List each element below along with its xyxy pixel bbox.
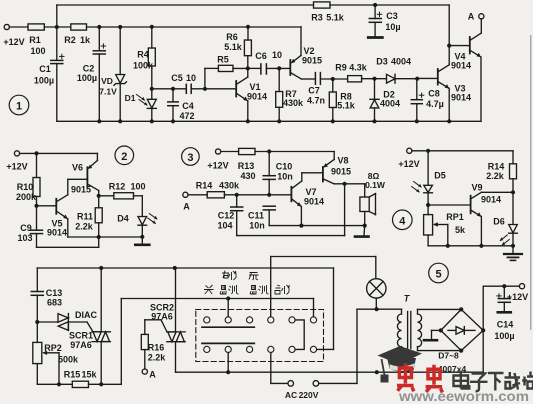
capacitor C10 bbox=[263, 152, 275, 195]
svg-text:C2: C2 bbox=[83, 64, 95, 74]
wire long bottom bbox=[176, 371, 484, 373]
svg-text:100µ: 100µ bbox=[34, 76, 54, 86]
label jiance 1 (monitor) bbox=[220, 285, 239, 294]
watermark chong chong red bbox=[397, 364, 442, 393]
svg-text:683: 683 bbox=[47, 298, 62, 308]
svg-text:104: 104 bbox=[217, 221, 232, 231]
svg-text:100µ: 100µ bbox=[494, 331, 514, 341]
svg-text:www.eeworm.com: www.eeworm.com bbox=[398, 388, 529, 404]
svg-text:15k: 15k bbox=[81, 370, 97, 380]
dian bbox=[454, 371, 470, 389]
svg-text:9014: 9014 bbox=[451, 61, 471, 71]
text labels bottom bbox=[44, 288, 528, 400]
node bbox=[502, 284, 506, 288]
transistor V8 bbox=[323, 152, 365, 184]
svg-text:C14: C14 bbox=[497, 320, 514, 330]
svg-text:430k: 430k bbox=[219, 181, 240, 191]
svg-text:9014: 9014 bbox=[304, 197, 324, 207]
resistor R10 bbox=[33, 153, 40, 205]
node bbox=[97, 25, 101, 29]
svg-text:C8: C8 bbox=[428, 89, 440, 99]
wire AC2 to lamp bbox=[319, 309, 402, 383]
resistor R7 bbox=[276, 68, 283, 121]
svg-text:C5: C5 bbox=[171, 73, 183, 83]
section number 4 bbox=[393, 210, 413, 230]
text labels block 3 bbox=[183, 156, 386, 231]
svg-text:200k: 200k bbox=[16, 192, 37, 202]
node bbox=[173, 266, 177, 270]
label jiance 2 (monitor) bbox=[250, 285, 269, 294]
svg-text:AC: AC bbox=[285, 390, 297, 400]
svg-text:C12: C12 bbox=[218, 211, 235, 221]
svg-text:+12V: +12V bbox=[507, 292, 528, 302]
wire bbox=[152, 88, 187, 90]
label taideng (desk lamp) bbox=[275, 285, 290, 295]
svg-text:7.1V: 7.1V bbox=[99, 87, 117, 97]
svg-text:V9: V9 bbox=[471, 183, 482, 193]
diode D3 bbox=[387, 74, 418, 83]
node bbox=[97, 194, 101, 198]
resistor R4 bbox=[148, 27, 155, 89]
terminal A block3 bbox=[183, 192, 188, 197]
svg-text:DIAC: DIAC bbox=[75, 310, 97, 320]
capacitor C12 bbox=[231, 195, 345, 236]
wire bbox=[412, 150, 513, 152]
capacitor C8 bbox=[411, 79, 424, 122]
svg-text:4007x4: 4007x4 bbox=[438, 364, 467, 374]
node bbox=[511, 244, 515, 248]
wire stem bottom c2 bbox=[227, 353, 229, 373]
node bbox=[375, 370, 379, 374]
wire bottom c6 riser bbox=[317, 268, 334, 349]
terminal AC1 bbox=[288, 381, 294, 387]
node bbox=[331, 119, 335, 123]
wire bbox=[330, 4, 449, 6]
svg-text:10: 10 bbox=[272, 50, 282, 60]
svg-text:D6: D6 bbox=[493, 217, 505, 227]
svg-text:VD: VD bbox=[101, 76, 113, 86]
transistor V7 bbox=[291, 173, 323, 226]
node bbox=[277, 119, 281, 123]
svg-text:+12V: +12V bbox=[3, 37, 24, 47]
svg-text:5: 5 bbox=[435, 269, 441, 281]
capacitor C14 bbox=[497, 286, 511, 312]
svg-text:A: A bbox=[149, 370, 156, 380]
svg-text:D1: D1 bbox=[125, 93, 136, 103]
switch wiper bar top bbox=[202, 326, 254, 328]
ground speaker bbox=[355, 226, 369, 237]
zi bbox=[470, 374, 488, 392]
svg-text:R13: R13 bbox=[238, 161, 255, 171]
transistor V9 bbox=[471, 192, 513, 246]
bridge rectifier D7-8 bbox=[439, 307, 486, 352]
svg-text:9015: 9015 bbox=[302, 56, 322, 66]
svg-text:10n: 10n bbox=[249, 221, 265, 231]
svg-text:9014: 9014 bbox=[247, 92, 267, 102]
svg-text:4.3k: 4.3k bbox=[349, 63, 368, 73]
wire rail y268 bbox=[37, 267, 333, 269]
svg-text:C7: C7 bbox=[308, 86, 320, 96]
svg-text:5k: 5k bbox=[455, 225, 466, 235]
wire bbox=[266, 67, 290, 69]
ground bridge bbox=[424, 330, 441, 340]
node bbox=[299, 224, 303, 228]
node bbox=[447, 119, 451, 123]
svg-text:+12V: +12V bbox=[207, 161, 228, 171]
transformer T secondary bbox=[418, 309, 462, 350]
svg-text:0.1W: 0.1W bbox=[365, 180, 386, 190]
svg-text:100: 100 bbox=[30, 46, 45, 56]
node bbox=[372, 77, 376, 81]
svg-text:R5: R5 bbox=[217, 55, 229, 65]
text labels block 1 bbox=[3, 11, 474, 121]
node bbox=[415, 119, 419, 123]
svg-text:C13: C13 bbox=[46, 288, 63, 298]
node bbox=[246, 66, 250, 70]
node bbox=[99, 382, 103, 386]
capacitor C6 bbox=[261, 64, 267, 74]
node bbox=[372, 119, 376, 123]
capacitor C5 bbox=[186, 84, 191, 93]
svg-text:100k: 100k bbox=[133, 61, 154, 71]
svg-text:9014: 9014 bbox=[481, 195, 501, 205]
terminal A bbox=[479, 14, 484, 19]
svg-text:5.1k: 5.1k bbox=[326, 13, 345, 23]
wire bbox=[191, 88, 236, 90]
svg-text:3: 3 bbox=[187, 152, 193, 164]
wire right riser to +12V out bbox=[483, 286, 519, 372]
transistor V3 bbox=[417, 46, 449, 122]
resistor R6 bbox=[244, 27, 251, 69]
terminal +12V block3 bbox=[216, 149, 221, 154]
svg-text:100µ: 100µ bbox=[77, 73, 97, 83]
svg-text:V2: V2 bbox=[303, 46, 314, 56]
wire stem top c2 bbox=[227, 299, 229, 317]
svg-text:97A6: 97A6 bbox=[151, 312, 173, 322]
svg-text:5.1k: 5.1k bbox=[224, 42, 243, 52]
svg-text:472: 472 bbox=[179, 111, 194, 121]
svg-text:9015: 9015 bbox=[331, 167, 351, 177]
LED D4 bbox=[138, 196, 157, 237]
node bbox=[35, 320, 39, 324]
capacitor C13 bbox=[31, 268, 43, 342]
node bbox=[373, 3, 377, 7]
resistor R9 bbox=[348, 76, 387, 82]
svg-text:R1: R1 bbox=[29, 35, 41, 45]
scan edge line bbox=[530, 35, 532, 330]
svg-text:R6: R6 bbox=[226, 32, 238, 42]
triac SCR2 bbox=[167, 268, 185, 372]
wire bbox=[248, 67, 261, 69]
chinese switch labels bbox=[204, 271, 290, 295]
wire bbox=[44, 26, 71, 28]
node bbox=[343, 182, 347, 186]
node bbox=[97, 119, 101, 123]
node bbox=[277, 66, 281, 70]
section number 5 bbox=[429, 263, 449, 283]
watermark dianzi xiazai zhan bbox=[454, 371, 533, 391]
watermark cap bbox=[378, 346, 423, 383]
resistor R15 bbox=[37, 381, 121, 387]
section number 3 bbox=[182, 148, 200, 166]
node bbox=[57, 382, 61, 386]
svg-text:4.7µ: 4.7µ bbox=[426, 99, 444, 109]
wire top rail riser bbox=[56, 5, 58, 27]
wire bracket c5 bbox=[295, 320, 304, 350]
node bbox=[171, 119, 175, 123]
node bbox=[171, 87, 175, 91]
terminal +12V block4 bbox=[407, 148, 412, 153]
svg-text:R12: R12 bbox=[109, 182, 126, 192]
svg-text:100: 100 bbox=[130, 182, 145, 192]
svg-text:2.2k: 2.2k bbox=[486, 171, 505, 181]
svg-text:D5: D5 bbox=[434, 171, 446, 181]
capacitor C3 bbox=[368, 5, 382, 38]
transistor V4 bbox=[449, 19, 481, 121]
svg-text:9014: 9014 bbox=[451, 93, 471, 103]
resistor R14 bbox=[188, 192, 291, 198]
text labels block 4 bbox=[398, 159, 504, 235]
terminal AC2 bbox=[313, 381, 319, 387]
svg-text:10: 10 bbox=[186, 73, 196, 83]
terminal +12V block2 bbox=[14, 151, 19, 156]
wire stem top c6 bbox=[313, 299, 315, 317]
node bbox=[235, 193, 239, 197]
node bbox=[447, 44, 451, 48]
wire top rail bbox=[57, 4, 314, 6]
node bbox=[246, 119, 250, 123]
ground block4 bbox=[504, 246, 522, 261]
transistor V6 bbox=[87, 153, 98, 195]
label wu (none) bbox=[249, 273, 259, 281]
svg-text:R2: R2 bbox=[64, 35, 76, 45]
node bbox=[150, 25, 154, 29]
transistor V5 bbox=[37, 179, 143, 237]
resistor R14b bbox=[510, 151, 517, 193]
svg-text:R15: R15 bbox=[64, 370, 81, 380]
svg-text:103: 103 bbox=[17, 233, 32, 243]
svg-text:R10: R10 bbox=[17, 182, 34, 192]
transformer T primary bbox=[397, 309, 401, 372]
resistor R5 bbox=[205, 65, 248, 89]
svg-text:220V: 220V bbox=[299, 390, 319, 400]
capacitor C7 bbox=[315, 73, 320, 85]
svg-text:10n: 10n bbox=[277, 172, 293, 182]
node bbox=[226, 296, 230, 300]
resistor R11 bbox=[95, 196, 102, 248]
node bbox=[34, 204, 38, 208]
wire bottom rail block1 bbox=[57, 120, 481, 122]
resistor R13 bbox=[221, 148, 335, 154]
switch dashed box bbox=[196, 310, 324, 362]
node bbox=[226, 370, 230, 374]
svg-text:+12V: +12V bbox=[398, 159, 419, 169]
node bbox=[267, 149, 271, 153]
svg-text:V8: V8 bbox=[337, 156, 348, 166]
speaker bbox=[360, 184, 376, 226]
svg-text:C10: C10 bbox=[276, 162, 293, 172]
terminal +12V out bbox=[519, 284, 524, 289]
svg-text:R14: R14 bbox=[488, 162, 505, 172]
svg-text:5.1k: 5.1k bbox=[337, 101, 356, 111]
node bbox=[479, 244, 483, 248]
wire bottom block4 bbox=[428, 245, 513, 247]
node bbox=[375, 307, 379, 311]
wire feedback bbox=[344, 184, 346, 236]
wire bbox=[9, 26, 28, 28]
svg-text:D7~8: D7~8 bbox=[438, 351, 459, 361]
node bbox=[511, 190, 515, 194]
wire bbox=[320, 78, 347, 80]
svg-text:430k: 430k bbox=[283, 98, 304, 108]
svg-text:RP2: RP2 bbox=[44, 343, 62, 353]
label guan (off) bbox=[204, 285, 214, 294]
svg-text:RP1: RP1 bbox=[446, 212, 464, 222]
node bbox=[118, 119, 122, 123]
svg-text:4: 4 bbox=[399, 215, 406, 227]
node bbox=[246, 25, 250, 29]
svg-text:430: 430 bbox=[240, 171, 255, 181]
svg-text:9015: 9015 bbox=[71, 185, 91, 195]
svg-text:C11: C11 bbox=[248, 211, 264, 221]
node bbox=[426, 149, 430, 153]
LED D6 bbox=[500, 192, 518, 246]
section number 2 bbox=[115, 146, 134, 165]
svg-text:V6: V6 bbox=[72, 163, 83, 173]
node bbox=[331, 77, 335, 81]
svg-text:C4: C4 bbox=[182, 101, 194, 111]
resistor R1 bbox=[28, 24, 44, 30]
text labels block 2 bbox=[6, 162, 145, 244]
svg-text:R16: R16 bbox=[148, 343, 165, 353]
potentiometer RP1 bbox=[424, 205, 448, 246]
transformer core bbox=[408, 312, 411, 349]
resistor R16 bbox=[141, 320, 167, 369]
svg-text:D4: D4 bbox=[117, 214, 129, 224]
svg-text:V7: V7 bbox=[305, 187, 316, 197]
photodiode D5 bbox=[412, 151, 433, 205]
DIAC bbox=[37, 314, 93, 332]
capacitor C2 bbox=[93, 27, 105, 121]
svg-text:97A6: 97A6 bbox=[70, 340, 92, 350]
capacitor C4 bbox=[168, 89, 178, 122]
svg-text:4004: 4004 bbox=[391, 57, 411, 67]
node bbox=[415, 77, 419, 81]
node bbox=[426, 203, 430, 207]
transistor V1 bbox=[236, 68, 248, 121]
node bbox=[203, 87, 207, 91]
svg-text:D3: D3 bbox=[376, 57, 388, 67]
terminal A bottom bbox=[142, 369, 147, 374]
svg-text:C3: C3 bbox=[386, 11, 398, 21]
node bbox=[150, 119, 154, 123]
diode D2 bbox=[370, 79, 379, 122]
svg-text:2.2k: 2.2k bbox=[75, 222, 94, 232]
node bbox=[363, 224, 367, 228]
switch contacts bottom row bbox=[204, 346, 317, 352]
wire right riser SCR1 block bbox=[121, 299, 313, 385]
terminal +12V input bbox=[4, 24, 9, 29]
label youdeng (with lamp) bbox=[222, 271, 236, 281]
svg-text:A: A bbox=[183, 202, 190, 212]
svg-text:SCR1: SCR1 bbox=[69, 331, 93, 341]
svg-text:500k: 500k bbox=[58, 355, 79, 365]
ground D4 bbox=[135, 237, 149, 245]
photodiode D1 bbox=[137, 89, 157, 122]
svg-text:V1: V1 bbox=[249, 82, 260, 92]
triac SCR1 bbox=[92, 268, 110, 384]
svg-text:9014: 9014 bbox=[47, 228, 67, 238]
svg-text:C1: C1 bbox=[39, 64, 51, 74]
capacitor C1 bbox=[51, 27, 64, 121]
transistor V2 bbox=[290, 27, 315, 79]
node bbox=[34, 151, 38, 155]
resistor R8 bbox=[329, 79, 336, 121]
svg-text:1k: 1k bbox=[80, 35, 91, 45]
svg-text:+12V: +12V bbox=[6, 162, 27, 172]
capacitor C11 bbox=[263, 206, 365, 225]
node bbox=[446, 244, 450, 248]
resistor R12 bbox=[99, 193, 143, 199]
svg-text:10µ: 10µ bbox=[385, 22, 400, 32]
wire top right corner bbox=[448, 5, 450, 46]
svg-text:A: A bbox=[468, 12, 475, 22]
node bbox=[267, 193, 271, 197]
zai bbox=[505, 372, 521, 390]
resistor R3 bbox=[314, 2, 331, 8]
svg-text:4004: 4004 bbox=[380, 99, 400, 109]
node bbox=[99, 266, 103, 270]
svg-text:2: 2 bbox=[121, 151, 127, 163]
node bbox=[55, 25, 59, 29]
svg-text:R14: R14 bbox=[196, 181, 213, 191]
svg-text:2.2k: 2.2k bbox=[148, 353, 167, 363]
svg-text:R9: R9 bbox=[335, 63, 347, 73]
wire lamp top bbox=[271, 257, 376, 317]
svg-text:4.7n: 4.7n bbox=[307, 96, 325, 106]
node bbox=[97, 235, 101, 239]
xia bbox=[488, 373, 504, 391]
wire bbox=[20, 152, 98, 154]
capacitor C9 bbox=[31, 206, 99, 248]
wire bbox=[428, 204, 471, 206]
node bbox=[140, 235, 144, 239]
svg-text:C6: C6 bbox=[255, 51, 267, 61]
wire stem bottom c4 to AC bbox=[271, 353, 288, 384]
svg-text:R11: R11 bbox=[77, 212, 93, 222]
svg-text:R3: R3 bbox=[311, 13, 323, 23]
zhan bbox=[522, 372, 533, 389]
svg-text:1: 1 bbox=[16, 101, 22, 113]
watermark bbox=[378, 346, 533, 404]
switch contacts top row bbox=[204, 317, 317, 323]
section number 1 bbox=[9, 95, 29, 115]
node bbox=[118, 25, 122, 29]
potentiometer RP2 bbox=[33, 342, 59, 384]
svg-text:C9: C9 bbox=[20, 223, 32, 233]
resistor R2 bbox=[71, 24, 87, 30]
lamp bbox=[367, 279, 386, 310]
switch wiper bar bottom bbox=[202, 342, 254, 344]
wire main rail bbox=[87, 26, 302, 28]
svg-text:R4: R4 bbox=[137, 50, 149, 60]
node bbox=[150, 87, 154, 91]
zener diode VD bbox=[114, 27, 127, 121]
